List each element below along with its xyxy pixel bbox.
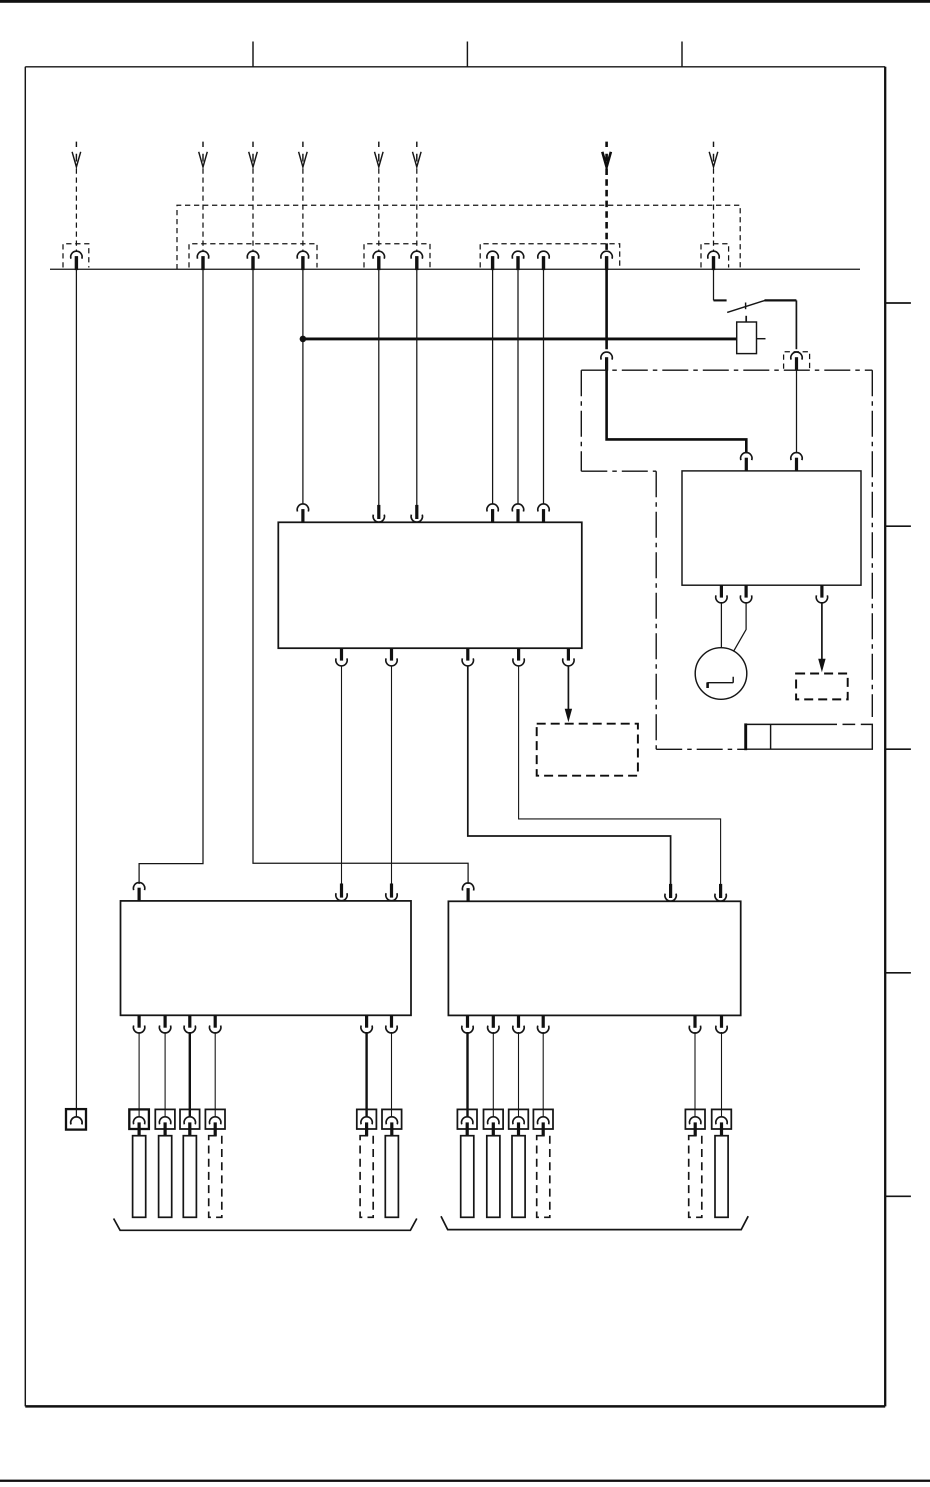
driver unit U4 box xyxy=(448,901,740,1015)
plug connector P8 xyxy=(484,1109,504,1135)
dashed drop wire to C10 bold xyxy=(605,169,608,251)
dash-dot unit boundary top xyxy=(581,369,872,371)
dashed drop wire to C3 xyxy=(252,169,254,251)
switch S1 fixed contact xyxy=(714,299,727,301)
dashed drop wire to C11 xyxy=(713,169,715,251)
arrow A6 xyxy=(413,142,422,167)
U3 top pin 2 xyxy=(336,884,347,901)
U4 top pin 1 xyxy=(462,883,473,902)
U4 bottom pin 2 xyxy=(488,1015,499,1033)
wire C8 down to U1 pin xyxy=(517,270,519,504)
arrow A5 xyxy=(375,142,384,167)
bold wire C12 to U2 pin xyxy=(607,370,747,453)
U3 top pin 1 xyxy=(133,883,144,902)
motor M1 circle xyxy=(695,648,747,700)
coil R10 dashed xyxy=(537,1136,550,1218)
right tick 4 xyxy=(885,972,911,974)
dash-dot unit boundary bottom xyxy=(656,748,746,750)
U3 bottom pin 1 xyxy=(133,1015,144,1033)
coil R12 xyxy=(715,1136,728,1218)
dashed drop wire to C2 xyxy=(202,169,204,251)
switch actuator tick xyxy=(745,303,747,310)
relay block left edge bold xyxy=(744,723,747,750)
top tick 1 xyxy=(252,42,254,67)
wire C1 down to ground connector xyxy=(75,270,77,1117)
U2 top pin 1 xyxy=(741,453,752,472)
coil R1 xyxy=(133,1136,146,1218)
plug connector P2 xyxy=(155,1109,175,1135)
fuse F1 link tick xyxy=(745,316,747,322)
plug connector P7 xyxy=(457,1109,477,1135)
bold wire C10 down to boundary connector C12 xyxy=(605,270,608,350)
bold wire U1 pin3 to U4 xyxy=(468,666,671,884)
wire C5 down to U1 pin xyxy=(378,270,380,506)
wire U4 pin to P12 xyxy=(721,1032,723,1117)
wire U3 pin to P4 xyxy=(214,1032,216,1117)
U2 top pin 2 xyxy=(791,453,802,472)
wire C11 down to switch xyxy=(713,270,715,301)
plug connector P3 xyxy=(180,1109,200,1135)
U3 bottom pin 3 xyxy=(184,1015,195,1033)
coil R7 xyxy=(461,1136,474,1218)
bus connector C8 xyxy=(512,251,523,270)
fuse F1 right stub xyxy=(757,338,766,340)
U1 top pin 6 xyxy=(538,504,549,523)
wire U2 pin2 to motor xyxy=(734,602,747,651)
connector group box G2 xyxy=(189,244,317,268)
U3 bottom pin 4 xyxy=(210,1015,221,1033)
arrow A3 xyxy=(249,142,258,167)
top tick 2 xyxy=(466,42,468,67)
plug connector P5 xyxy=(357,1109,377,1135)
plug connector P11 xyxy=(685,1109,705,1135)
coil R8 xyxy=(487,1136,500,1218)
wire C7 down to U1 pin xyxy=(492,270,494,504)
U1 bottom pin 3 xyxy=(462,648,473,666)
U4 bottom pin 3 xyxy=(513,1015,524,1033)
relay block body xyxy=(746,724,873,749)
main ECU U1 box xyxy=(278,522,582,648)
coil R9 xyxy=(512,1136,525,1218)
bus connector C4 xyxy=(297,251,308,270)
arrow wire U1 pin5 xyxy=(567,666,569,711)
wire C9 down to U1 pin xyxy=(543,270,545,504)
switch S1 blade xyxy=(727,300,765,312)
U3 bottom pin 5 xyxy=(361,1015,372,1033)
bus connector C7 xyxy=(487,251,498,270)
U2 bottom pin 1 xyxy=(716,585,727,603)
coil R11 dashed xyxy=(689,1136,702,1218)
border frame right xyxy=(884,67,886,1407)
dashed drop wire to C6 xyxy=(416,169,418,251)
connector group box G3 xyxy=(364,244,430,268)
dashed load box L1 xyxy=(796,674,848,700)
right bracket xyxy=(441,1216,748,1229)
arrow A8 xyxy=(709,142,718,167)
U1 bottom pin 1 xyxy=(336,648,347,666)
dash-dot unit boundary right xyxy=(871,370,873,717)
U4 bottom pin 6 xyxy=(716,1015,727,1033)
wire U4 pin to P8 xyxy=(492,1032,494,1117)
bus connector C2 xyxy=(197,251,208,270)
dash-dot unit boundary step horizontal xyxy=(581,470,656,472)
border frame bottom xyxy=(25,1405,885,1408)
fuse F1 body xyxy=(737,322,757,354)
coil R4 dashed xyxy=(209,1136,222,1218)
coil R3 xyxy=(183,1136,196,1218)
output arrow U2 pin3 xyxy=(821,602,823,661)
U1 top pin 1 xyxy=(297,504,308,523)
wire C13 to U2 pin xyxy=(796,370,798,453)
U4 bottom pin 4 xyxy=(538,1015,549,1033)
U4 bottom pin 1 xyxy=(462,1015,473,1033)
bus connector C1 xyxy=(71,251,82,270)
motor M1 symbol left tick xyxy=(706,682,709,688)
U3 bottom pin 2 xyxy=(159,1015,170,1033)
right tick 2 xyxy=(885,525,911,527)
U2 bottom pin 2 xyxy=(740,585,751,603)
U1 top pin 4 xyxy=(487,504,498,523)
boundary connector C12 bold xyxy=(601,352,612,371)
border frame left xyxy=(24,67,26,1407)
bold wire U3 pin to P3 xyxy=(189,1032,191,1117)
wire U3 pin to P2 xyxy=(164,1032,166,1117)
bold wire U4 pin to P7 xyxy=(466,1032,468,1117)
connector group box G1 xyxy=(63,244,89,268)
border frame top xyxy=(25,66,885,68)
switch output drop wire xyxy=(795,300,797,349)
coil R6 xyxy=(385,1136,398,1218)
wire C3 down then right to U4 pin xyxy=(253,270,468,884)
plug connector P4 xyxy=(205,1109,225,1135)
bus connector C9 xyxy=(538,251,549,270)
plug connector P1 xyxy=(129,1109,149,1135)
U3 top pin 3 xyxy=(386,884,397,901)
arrow A1 xyxy=(72,142,81,167)
right tick 5 xyxy=(885,1195,911,1197)
connector group box G4 xyxy=(480,244,620,268)
arrow A4 xyxy=(299,142,308,167)
page top rule xyxy=(0,0,930,3)
right tick 1 xyxy=(885,302,911,304)
dash-dot unit boundary left xyxy=(580,370,582,471)
arrow A2 xyxy=(199,142,208,167)
U3 bottom pin 6 xyxy=(386,1015,397,1033)
driver unit U3 box xyxy=(121,901,412,1015)
ground connector arc xyxy=(71,1117,82,1125)
U1 top pin 2 xyxy=(373,505,384,522)
bus connector C6 xyxy=(411,251,422,270)
bus connector C5 xyxy=(373,251,384,270)
U4 top pin 3 xyxy=(715,884,726,901)
motor M1 symbol bar xyxy=(707,677,733,683)
bus line xyxy=(50,268,860,270)
dashed load box L2 xyxy=(537,724,638,776)
U4 bottom pin 5 xyxy=(689,1015,700,1033)
harness outline dashed box xyxy=(177,205,740,269)
junction dot xyxy=(300,336,307,343)
plug connector P10 xyxy=(533,1109,553,1135)
U1 top pin 3 xyxy=(411,505,422,522)
plug connector P6 xyxy=(382,1109,402,1135)
wire U1 pin2 to U3 xyxy=(391,666,393,884)
connector group box G5 xyxy=(701,244,729,268)
arrow A7 bold xyxy=(602,142,611,167)
connector C13 dashed outline xyxy=(784,352,810,369)
boundary connector C13 xyxy=(791,352,802,371)
coil R2 xyxy=(159,1136,172,1218)
bus connector C10 xyxy=(601,251,612,270)
wire C6 down to U1 pin xyxy=(416,270,418,506)
wire U4 pin to P10 xyxy=(542,1032,544,1117)
plug connector P9 xyxy=(509,1109,529,1135)
dashed drop wire to C5 xyxy=(378,169,380,251)
U1 bottom pin 2 xyxy=(386,648,397,666)
wire U1 pin4 to U4 xyxy=(519,666,721,884)
dash-dot unit boundary step vertical xyxy=(655,471,657,749)
wire U4 pin to P11 xyxy=(694,1032,696,1117)
wire C4 down to U1 pin with junction xyxy=(302,270,304,504)
bus connector C11 xyxy=(708,251,719,270)
U4 top pin 2 xyxy=(665,884,676,901)
U1 bottom pin 5 xyxy=(563,648,574,666)
right tick 3 xyxy=(885,748,911,750)
plug connector P12 xyxy=(712,1109,732,1135)
wire U4 pin to P9 xyxy=(518,1032,520,1117)
U2 bottom pin 3 xyxy=(816,585,827,603)
wire U2 pin1 to motor xyxy=(720,602,722,648)
wire U1 pin1 to U3 xyxy=(341,666,343,884)
ground connector square xyxy=(66,1109,86,1130)
U1 bottom pin 4 xyxy=(513,648,524,666)
wire U3 pin to P6 xyxy=(391,1032,393,1117)
relay block divider xyxy=(770,724,772,749)
bold feed wire junction to fuse xyxy=(303,337,737,340)
dashed drop wire to C1 xyxy=(75,169,77,251)
switch S1 output lead xyxy=(765,299,797,301)
control unit U2 box xyxy=(682,471,861,585)
dashed drop wire to C4 xyxy=(302,169,304,251)
arrowhead U1 pin5 xyxy=(565,709,572,723)
wire U3 pin to P1 xyxy=(138,1032,140,1117)
output arrowhead xyxy=(818,659,825,673)
top tick 3 xyxy=(681,42,683,67)
U1 top pin 5 xyxy=(512,504,523,523)
wire C2 down then left to U3 pin xyxy=(139,270,203,884)
coil R5 dashed xyxy=(360,1136,373,1218)
left bracket xyxy=(114,1219,417,1231)
bottom page rule xyxy=(0,1480,930,1482)
bus connector C3 xyxy=(247,251,258,270)
bold wire U3 pin to P5 xyxy=(365,1032,367,1117)
